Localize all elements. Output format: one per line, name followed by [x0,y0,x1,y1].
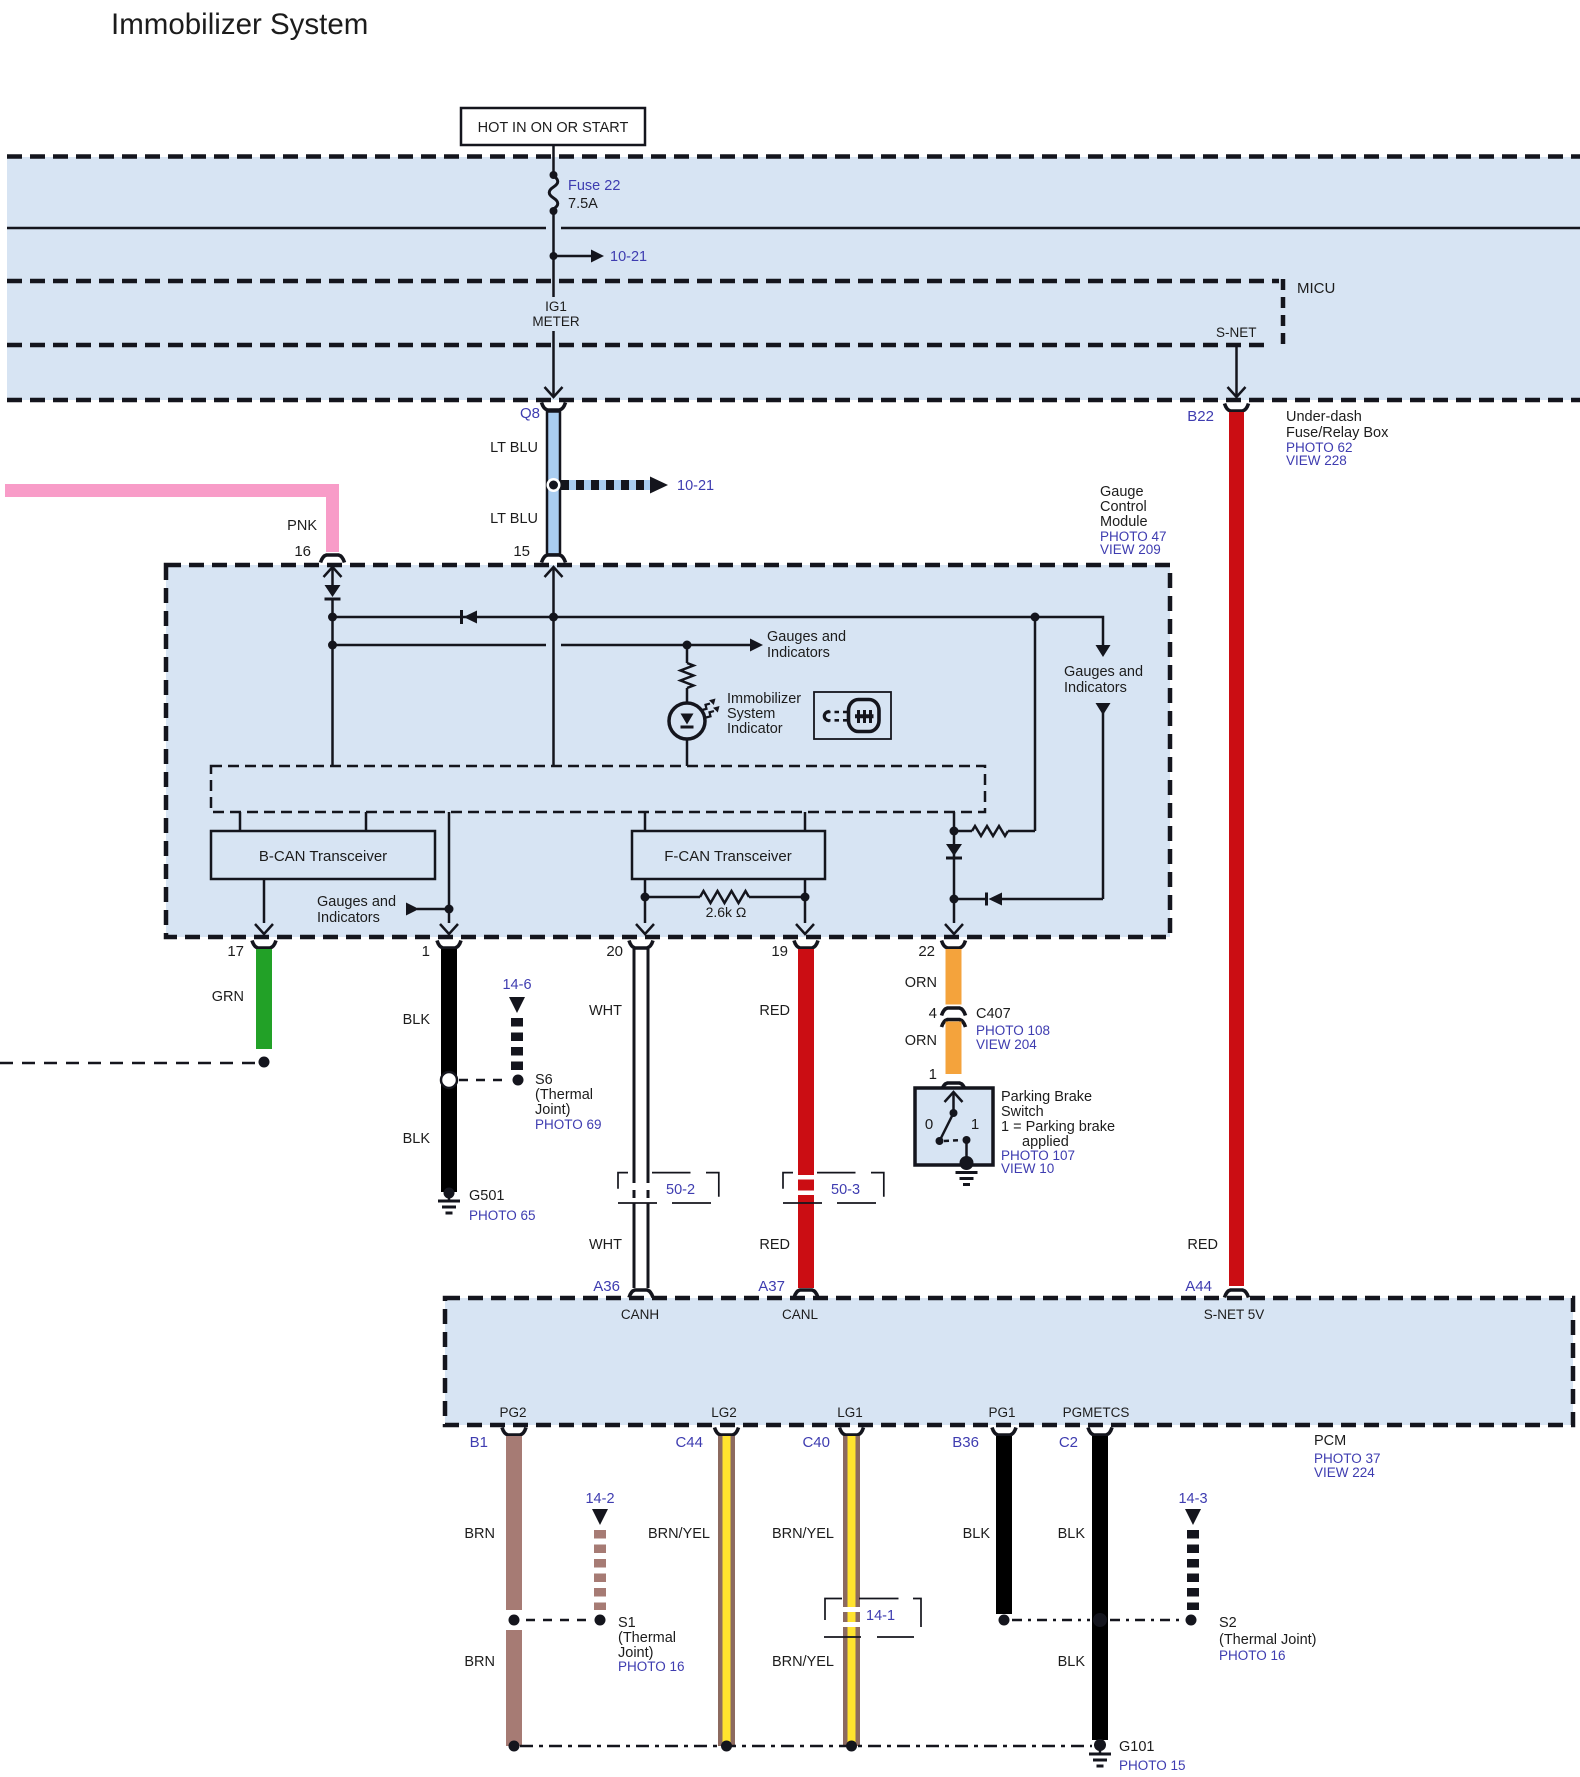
node junction pin22 return [950,895,959,904]
svg-text:A37: A37 [758,1278,785,1295]
svg-text:PHOTO 15: PHOTO 15 [1119,1758,1186,1773]
thermal joint S1 [505,1611,524,1630]
svg-text:LG2: LG2 [711,1405,737,1420]
svg-text:BRN: BRN [464,1654,495,1670]
wire contact to ground [965,1140,968,1160]
svg-text:G501: G501 [469,1188,504,1204]
wire stub 14-2 dashed brown [592,1509,608,1525]
svg-text:Gauges and: Gauges and [767,629,846,645]
svg-text:RED: RED [1187,1237,1218,1253]
svg-text:CANH: CANH [621,1307,659,1322]
node junction pin16/busB [328,641,337,650]
svg-text:15: 15 [513,543,530,560]
wire stub 14-3 dashed black [1185,1509,1201,1525]
wire LED branch [686,645,689,663]
wire S-NET arrow down to B22 [1235,345,1238,396]
gauge control module U1 box [166,565,1170,937]
wire CPU to pin 1 [448,812,451,923]
svg-text:14-6: 14-6 [502,977,531,993]
node G101 dot [1094,1739,1106,1751]
connector A37 [794,1290,818,1298]
svg-text:19: 19 [771,943,788,960]
wire dashed branch to 10-21 [561,480,650,490]
svg-text:(Thermal Joint): (Thermal Joint) [1219,1632,1317,1648]
svg-text:BRN/YEL: BRN/YEL [648,1526,710,1542]
junction marker 50-3 white gaps [797,1175,815,1180]
node S6 junction dot [513,1075,524,1086]
svg-text:LT BLU: LT BLU [490,440,538,456]
connector C44 [715,1428,739,1436]
svg-text:14-1: 14-1 [866,1608,895,1624]
connector pin1 [437,941,461,949]
node junction GRN end [259,1057,270,1068]
junction marker 50-2 [618,1173,719,1203]
svg-text:1: 1 [929,1066,937,1083]
label box HOT IN ON OR START [461,108,645,145]
parking brake switch box [915,1088,993,1165]
wire CPU to F-CAN stub 1 [644,812,647,831]
svg-text:1: 1 [422,943,430,960]
wire F-CAN to pin 19 [804,879,807,923]
wire LT BLU Q8-to-pin15 [547,412,560,555]
svg-text:S6: S6 [535,1072,553,1088]
connector pin 16 [321,555,345,563]
svg-text:14-3: 14-3 [1178,1491,1207,1507]
svg-text:Indicators: Indicators [767,645,830,661]
connector pin17 [252,941,276,949]
svg-text:G101: G101 [1119,1739,1154,1755]
svg-text:BLK: BLK [1058,1526,1086,1542]
wire BRN/YEL C44 [718,1436,735,1746]
connector B36 [992,1428,1016,1436]
svg-text:S1: S1 [618,1615,636,1631]
node S1 dot [595,1615,606,1626]
svg-text:Switch: Switch [1001,1104,1044,1120]
band internal dashed line (MICU bottom) [7,343,1270,348]
svg-text:HOT IN ON OR START: HOT IN ON OR START [478,120,629,136]
wire CPU to B-CAN stub 2 [365,812,368,831]
junction marker 14-1 white gaps [842,1607,861,1612]
junction marker 14-1 brackets [824,1599,921,1638]
wire branch arrow to 10-21 [554,255,594,258]
switch dashed contact [944,1140,962,1141]
svg-text:C40: C40 [802,1434,830,1451]
svg-text:50-2: 50-2 [666,1182,695,1198]
svg-text:BRN/YEL: BRN/YEL [772,1654,834,1670]
wire bus A drop to resistor [1034,617,1037,831]
wire F-CAN to pin 20 [644,879,647,923]
connector pin22 [942,941,966,949]
resistor R3 to bus A drop [954,830,972,833]
key icon box [814,692,891,739]
svg-text:2.6k Ω: 2.6k Ω [706,904,747,920]
node junction busA/pin15 [549,613,558,622]
svg-text:Fuse 22: Fuse 22 [568,178,620,194]
node junction gauges arrow pin1 [445,905,454,914]
svg-text:BLK: BLK [1058,1654,1086,1670]
wire ORN pin22 lower [946,1022,962,1075]
wire bottom ground bus dash-dot [520,1745,1092,1748]
svg-text:PHOTO 69: PHOTO 69 [535,1117,602,1132]
node B1 bottom dot [509,1741,520,1752]
svg-text:ORN: ORN [905,975,937,991]
svg-text:WHT: WHT [589,1237,622,1253]
svg-text:VIEW 224: VIEW 224 [1314,1465,1375,1480]
node junction above fuse [550,171,558,179]
fuse Fuse 22 7.5A [549,176,558,209]
wire dashed stub to left edge [0,1062,256,1065]
svg-text:1 = Parking brake: 1 = Parking brake [1001,1119,1115,1135]
svg-text:Parking Brake: Parking Brake [1001,1089,1092,1105]
switch lever [940,1113,954,1140]
svg-text:RED: RED [759,1237,790,1253]
arrow into module pin 15 [545,567,563,577]
svg-text:Immobilizer System: Immobilizer System [111,8,368,41]
svg-text:PCM: PCM [1314,1433,1346,1449]
svg-text:(Thermal: (Thermal [535,1087,593,1103]
svg-text:BLK: BLK [963,1526,991,1542]
svg-text:BLK: BLK [403,1131,431,1147]
node junction pin16/busA [328,613,337,622]
F-CAN transceiver box [632,831,825,879]
wire from gauges label down [1096,703,1111,715]
wire ORN pin22 upper [946,949,962,1005]
svg-text:S2: S2 [1219,1615,1237,1631]
svg-text:PGMETCS: PGMETCS [1063,1405,1130,1420]
arrow bus B to gauges [750,639,763,652]
ground symbol parking switch [956,1171,978,1174]
thermal joint S6 ring [441,1072,457,1088]
connector B22 [1225,404,1249,412]
svg-text:S-NET: S-NET [1216,325,1257,340]
svg-text:System: System [727,706,775,722]
svg-text:Indicators: Indicators [317,910,380,926]
connector A36 [629,1290,653,1298]
PCM box [445,1298,1573,1425]
svg-text:Indicators: Indicators [1064,680,1127,696]
wire CPU to F-CAN stub 2 [804,812,807,831]
wire PNK from left edge [5,491,333,553]
svg-text:A44: A44 [1185,1278,1212,1295]
connector C407 lower [942,1020,966,1028]
svg-text:LT BLU: LT BLU [490,511,538,527]
ground node parking switch [960,1156,974,1170]
node junction at 10-21 branch [550,252,558,260]
connector pin19 [794,941,818,949]
svg-text:Indicator: Indicator [727,721,783,737]
under-dash fuse/relay box power band [7,157,1580,400]
svg-text:Under-dash: Under-dash [1286,409,1362,425]
svg-text:16: 16 [294,543,311,560]
svg-text:PHOTO 65: PHOTO 65 [469,1208,536,1223]
svg-text:Control: Control [1100,499,1147,515]
junction marker 50-3 [783,1173,884,1203]
svg-text:4: 4 [929,1005,937,1022]
band internal solid line [7,227,546,230]
connector C40 [840,1428,864,1436]
wire BLK C2 [1092,1436,1108,1740]
svg-text:C44: C44 [675,1434,703,1451]
svg-text:50-3: 50-3 [831,1182,860,1198]
wire stub 14-6 dashed black [509,997,525,1013]
svg-text:ORN: ORN [905,1033,937,1049]
svg-text:CANL: CANL [782,1307,819,1322]
ground G101 [1099,1745,1102,1754]
wire BLK B36 [996,1436,1012,1614]
svg-text:PHOTO 37: PHOTO 37 [1314,1451,1381,1466]
svg-text:VIEW 10: VIEW 10 [1001,1161,1054,1176]
wire BLK pin1 [441,949,457,1192]
svg-text:PNK: PNK [287,518,317,534]
svg-text:MICU: MICU [1297,280,1335,297]
svg-text:Q8: Q8 [520,405,540,422]
svg-text:Immobilizer: Immobilizer [727,691,801,707]
connector C2 [1088,1428,1112,1436]
svg-text:PG1: PG1 [988,1405,1015,1420]
key icon [824,700,879,732]
node junction resistor branch [950,827,959,836]
svg-text:PHOTO 16: PHOTO 16 [618,1659,685,1674]
svg-text:BRN: BRN [464,1526,495,1542]
arrow gauges-and-indicators into pin1 line [417,908,449,911]
dashed link to S1 [526,1619,590,1622]
wire fuse output [552,211,555,281]
svg-text:10-21: 10-21 [677,478,714,494]
svg-text:C407: C407 [976,1006,1011,1022]
svg-text:IG1: IG1 [545,299,567,314]
wire RED S-NET B22-to-A44 [1229,412,1244,1286]
connector Q8 [542,403,566,411]
ground G501 [448,1193,451,1201]
band top dashed border [7,154,1580,159]
connector parking switch [942,1083,966,1091]
svg-text:B1: B1 [470,1434,488,1451]
svg-text:PG2: PG2 [499,1405,526,1420]
svg-text:LG1: LG1 [837,1405,863,1420]
band bottom dashed border [7,398,1580,403]
diode D2 on bus A [460,610,463,624]
svg-text:GRN: GRN [212,989,244,1005]
diode D1 on pin16 line [325,585,341,597]
svg-text:VIEW 228: VIEW 228 [1286,453,1347,468]
svg-text:22: 22 [918,943,935,960]
arrow into module pin 16 [324,567,342,577]
svg-text:WHT: WHT [589,1003,622,1019]
connector B1 [502,1428,526,1436]
svg-text:17: 17 [227,943,244,960]
CPU inner dashed box [211,766,985,812]
connector C407 upper [942,1008,966,1016]
wire bus A to gauges arrow [1035,617,1103,645]
node C2 joint dot [1093,1613,1107,1627]
svg-text:A36: A36 [593,1278,620,1295]
connector pin 15 [542,555,566,563]
wire CPU to pin 22 [953,812,956,923]
svg-text:S-NET 5V: S-NET 5V [1204,1307,1265,1322]
svg-text:(Thermal: (Thermal [618,1630,676,1646]
svg-text:B36: B36 [952,1434,979,1451]
wire GRN pin17 [256,949,272,1049]
wire BRN B1 [506,1436,522,1610]
wire bus B horizontal [333,644,547,647]
wire bus A horizontal [333,616,1036,619]
svg-text:Fuse/Relay Box: Fuse/Relay Box [1286,425,1389,441]
diode D3 on gauges return line [1002,898,1103,901]
svg-text:Gauges and: Gauges and [1064,664,1143,680]
wire CPU to B-CAN stub 1 [239,812,242,831]
wire ignition feed from HOT box [552,145,555,176]
svg-text:METER: METER [532,314,580,329]
svg-text:C2: C2 [1059,1434,1078,1451]
svg-text:Module: Module [1100,514,1148,530]
svg-text:VIEW 204: VIEW 204 [976,1037,1037,1052]
node B36 end dot [999,1615,1010,1626]
wire B-CAN to pin 17 [263,879,266,923]
svg-text:BLK: BLK [403,1012,431,1028]
MICU bracket [1281,279,1286,347]
node G501 dot [444,1188,455,1199]
svg-text:Gauge: Gauge [1100,484,1144,500]
svg-text:B22: B22 [1187,408,1214,425]
svg-text:Gauges and: Gauges and [317,894,396,910]
diode D4 on pin22 line [946,844,962,856]
node junction busA right [1031,613,1040,622]
dashed link B36-C2-S2 [1012,1619,1090,1622]
svg-text:14-2: 14-2 [585,1491,614,1507]
node C44 bottom dot [721,1741,732,1752]
resistor R2 2.6k between CAN lines [645,896,700,899]
resistor R1 LED series [681,663,694,688]
svg-text:Joint): Joint) [535,1102,570,1118]
LED light rays [702,704,710,710]
svg-text:7.5A: 7.5A [568,196,598,212]
svg-text:RED: RED [759,1003,790,1019]
wire pin15 vertical [552,567,555,766]
svg-text:F-CAN Transceiver: F-CAN Transceiver [664,848,792,865]
connector A44 [1225,1290,1249,1298]
wire WHT pin20 outlined white [633,949,636,1175]
wire IG1 METER down [552,281,555,297]
switch arrow up [952,1093,955,1113]
svg-text:B-CAN Transceiver: B-CAN Transceiver [259,848,387,865]
wire RED pin19 [798,949,814,1288]
svg-text:BRN/YEL: BRN/YEL [772,1526,834,1542]
svg-text:PHOTO 108: PHOTO 108 [976,1023,1050,1038]
band internal dashed line (MICU top) [7,279,1279,284]
svg-text:0: 0 [925,1116,933,1133]
wire pin16 vertical [331,599,334,766]
B-CAN transceiver box [211,831,435,879]
svg-text:PHOTO 16: PHOTO 16 [1219,1648,1286,1663]
wire BRN/YEL C40 [843,1436,860,1746]
svg-text:20: 20 [606,943,623,960]
svg-text:1: 1 [971,1116,979,1133]
LED immobilizer indicator [669,703,705,739]
switch pivot node [950,1109,958,1117]
node C40 bottom dot [846,1741,857,1752]
connector pin20 [629,941,653,949]
svg-text:10-21: 10-21 [610,249,647,265]
svg-text:VIEW 209: VIEW 209 [1100,542,1161,557]
node junction on LT BLU wire [547,478,561,492]
dashed link to S6 [459,1079,510,1082]
node junction below fuse [550,207,558,215]
node junction LED branch [683,641,692,650]
node S2 dot [1186,1615,1197,1626]
